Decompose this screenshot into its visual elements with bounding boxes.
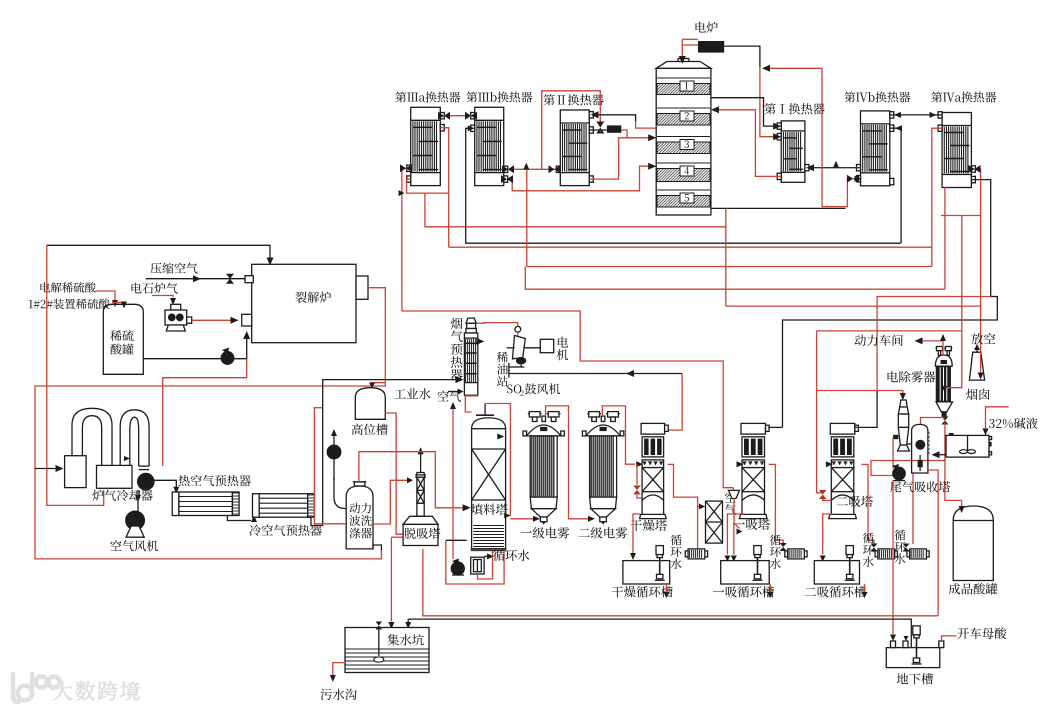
pipe pump loop to tower red bbox=[446, 539, 467, 541]
pipe IIIa-IIIb top red bbox=[440, 115, 474, 117]
absorber1 一吸塔 bbox=[741, 423, 766, 434]
pipe top feed to furnace black bbox=[47, 245, 270, 258]
label 冷空气预热器 bbox=[250, 525, 322, 536]
label 脱吸塔 bbox=[404, 528, 440, 539]
label 1#2#装置稀硫酸 bbox=[29, 299, 110, 310]
pipe into converter below bed2 red bbox=[636, 121, 657, 128]
label 工业水 bbox=[394, 388, 430, 399]
pipe air intake red bbox=[452, 404, 454, 560]
pipe ESP top to power house red bbox=[921, 341, 943, 355]
label heat-exchanger IVb 第Ⅳb换热器 bbox=[844, 92, 910, 103]
circulation cooler tailgas bbox=[907, 551, 910, 557]
pipe packed tower top gas red bbox=[485, 404, 510, 516]
pipe branch to head tank red bbox=[372, 382, 385, 384]
label 集水坑 bbox=[387, 634, 423, 646]
valve circle on blower suction bbox=[515, 326, 521, 332]
pipe cold-preheater outlet up black bbox=[311, 380, 458, 526]
tail gas pump black bbox=[893, 467, 905, 479]
pipe IVa right-nub1 red to chimney bbox=[971, 169, 980, 380]
label 尾气吸收塔 bbox=[890, 481, 950, 492]
label 循环水 drying vertical bbox=[671, 535, 682, 569]
pipe venturi feed arrow bbox=[900, 393, 906, 400]
pipe IIIa right nub down red bbox=[440, 128, 448, 248]
pipe stripper bottom to drain header red bbox=[423, 549, 938, 616]
cracking furnace 裂解炉 bbox=[252, 264, 356, 342]
pipe preheater bottom red underline bbox=[464, 395, 477, 397]
heat exchanger IIIa bbox=[411, 107, 441, 185]
label 污水沟 bbox=[321, 689, 357, 700]
oil station piping black bbox=[509, 366, 525, 368]
pipe IVa left-nub red down to header bbox=[932, 128, 942, 266]
pump on drying tank bbox=[656, 546, 663, 555]
pipe acid tank bottom to pump black bbox=[143, 358, 221, 360]
label heat-exchanger IVa 第Ⅳa换热器 bbox=[931, 92, 996, 103]
cooler U-tube 1 bbox=[72, 408, 112, 465]
label heat-exchanger IIIb 第Ⅲb换热器 bbox=[466, 92, 532, 103]
pipe converter-bed1-outlet to HX I black bbox=[711, 98, 775, 126]
pipe IIIb bottom valve to converter bed4 red bbox=[511, 166, 651, 191]
pipe main gas line blower black bbox=[509, 373, 682, 375]
label 压缩空气 bbox=[150, 263, 197, 274]
pipe absorber2 drain red bbox=[823, 514, 833, 555]
carbide gas line red bbox=[152, 296, 173, 298]
label 动力车间 bbox=[854, 335, 902, 347]
label 烟气预热器 vertical bbox=[451, 318, 463, 381]
pipe tee down to long header red bbox=[527, 169, 932, 266]
collection sump 集水坑 bbox=[345, 628, 429, 673]
label 二吸循环槽 bbox=[805, 586, 866, 597]
label 裂解炉 bbox=[295, 292, 331, 303]
electric furnace 电炉 block bbox=[698, 41, 724, 53]
converter catalyst bed 3 bbox=[657, 136, 710, 138]
pipe top feed left vertical red bbox=[47, 245, 104, 505]
pipe stripper drain to sump red bbox=[390, 537, 392, 621]
pipe absorber1 circulation red bbox=[769, 464, 784, 544]
wet ESP 电除雾器 bbox=[935, 355, 952, 366]
label 稀油站 vertical bbox=[497, 352, 508, 387]
pipe drying tower right circulation red bbox=[668, 464, 698, 549]
small inter tower bbox=[706, 501, 723, 543]
converter vessel 转化器 bbox=[656, 68, 711, 215]
heat exchanger IIIb bbox=[475, 107, 504, 185]
pipe absorber2 gas junction red bbox=[817, 390, 898, 392]
sump float device bbox=[378, 629, 380, 656]
pipe 215 branch red bbox=[941, 215, 981, 217]
ESP stage2 二级电雾 bbox=[589, 412, 600, 417]
pipe preheater side arrow bbox=[476, 338, 484, 345]
label 电石炉气 bbox=[132, 283, 178, 294]
pipe IVa bottom-left nub down red bbox=[944, 188, 946, 290]
label electric furnace 电炉 bbox=[696, 22, 718, 33]
label 开车母酸 bbox=[957, 627, 1006, 638]
pipe alkali feed red bbox=[986, 407, 1009, 428]
pipe ESP1 top loop red bbox=[546, 406, 589, 519]
pipe label-box red around 第Ⅱ换热器 bbox=[542, 91, 601, 170]
pipe scrubber-right to stripper top red bbox=[373, 480, 408, 524]
pipe to drying tower red bbox=[668, 374, 683, 431]
label 电解稀硫酸 bbox=[40, 282, 95, 293]
label 一级电雾 bbox=[521, 527, 570, 538]
pipe preheater top to blower red bbox=[476, 323, 518, 326]
absorber2 二吸塔 bbox=[830, 423, 855, 434]
pipe IVb top to IVa top black bbox=[890, 114, 942, 116]
flue gas preheater 烟气预热器 bbox=[466, 318, 476, 323]
pipe hot-to-cold preheater link black bbox=[227, 516, 251, 521]
pipe pump to furnace junction black bbox=[234, 338, 247, 359]
label heat-exchanger I 第Ⅰ换热器 bbox=[764, 103, 824, 114]
label 地下槽 bbox=[897, 673, 933, 684]
label 一吸塔 bbox=[734, 519, 770, 530]
label 循环水 absorber2 vertical bbox=[863, 533, 874, 567]
converter catalyst bed 5 bbox=[657, 189, 710, 191]
pipe ESP drain red bbox=[944, 418, 946, 419]
pipe alkali tank bottom loop red bbox=[871, 461, 946, 476]
pipe bed5 red riser to IVb bottom valve bbox=[822, 68, 853, 206]
watermark logo 大数跨境 bbox=[13, 674, 60, 702]
pipe to ESP1 cone red bbox=[510, 518, 533, 520]
pipe converter outlet down red 725 bbox=[725, 208, 727, 306]
pipe IVb right-nub2 black long down bbox=[890, 128, 901, 243]
label 二吸塔 bbox=[837, 496, 873, 507]
pipe absorber2 left valve red bbox=[817, 331, 823, 493]
drying tower left valve red bbox=[636, 464, 638, 485]
pipe IIIb to HX II red with valve bbox=[504, 168, 561, 170]
label heat-exchanger IIIa 第Ⅲa换热器 bbox=[395, 92, 460, 103]
label 32%碱液 bbox=[989, 418, 1038, 429]
label 炉气冷却器 bbox=[92, 490, 152, 501]
pipe head tank to stripper red bbox=[385, 413, 403, 534]
pipe heater to converter bed3 red bbox=[621, 130, 651, 138]
label 动力波洗涤器 bbox=[349, 503, 371, 514]
pipe furnace-right black down bbox=[724, 46, 760, 67]
air blower 空气风机 bbox=[126, 511, 145, 530]
head tank 高位槽 bbox=[355, 388, 385, 420]
heat exchanger IVa bbox=[942, 113, 971, 188]
converter catalyst bed 4 bbox=[657, 162, 710, 164]
label 循环水 absorber1 vertical bbox=[770, 535, 781, 569]
pipe header 267-289 link red bbox=[525, 267, 945, 290]
scrubber bottom outlet black bbox=[373, 545, 381, 551]
converter catalyst bed 1 bbox=[657, 77, 710, 79]
heat exchanger I bbox=[781, 121, 805, 182]
furnace gas cooler 炉气冷却器 boxes bbox=[65, 456, 87, 488]
pipe box loop to tower red bbox=[477, 551, 492, 579]
pipe tail line 306 red to chimney riser bbox=[726, 305, 981, 307]
pipe ESP2 top loop red bbox=[602, 406, 635, 464]
label heat-exchanger II 第Ⅱ换热器 bbox=[543, 94, 603, 105]
pipe IVb-return joins furnace line red bbox=[766, 67, 822, 69]
pipe sump overflow to sewer red bbox=[333, 663, 345, 676]
circulation cooler drying bbox=[685, 551, 688, 557]
pipe blower discharge to furnace red bbox=[192, 319, 233, 321]
pipe branch 296 red to absorber-2 bbox=[877, 297, 991, 391]
venturi column of tail gas absorber bbox=[900, 400, 907, 407]
roots blower 电石炉气风机 bbox=[171, 304, 181, 310]
label 二级电雾 bbox=[579, 527, 628, 538]
label 填料塔 bbox=[471, 504, 508, 515]
pipe furnace-to-converter-top red bbox=[682, 45, 698, 57]
pipe converter bed5 outlet black bbox=[711, 207, 846, 209]
ESP stage1 一级电雾 bbox=[529, 412, 540, 417]
packed tower 填料塔 bbox=[484, 404, 486, 416]
hot-gas pump circle bbox=[138, 473, 154, 489]
label 空气 vertical at absorber1 bbox=[725, 492, 736, 515]
drying circulation tank 干燥循环槽 bbox=[623, 561, 670, 584]
pipe HX I right to IVb black bbox=[812, 167, 861, 169]
pipe tail gas main red 330 bbox=[817, 330, 962, 332]
hot air preheater 热空气预热器 bbox=[172, 492, 179, 516]
pipe absorber2 circulation red bbox=[861, 464, 874, 544]
pipe alkali tank to absorber black bbox=[937, 454, 946, 456]
circulation water pump black bbox=[451, 562, 464, 575]
pipe HX I bottom to converter bed2-inlet red bbox=[717, 110, 782, 177]
label 干燥循环槽 bbox=[612, 586, 673, 597]
pipe IIIb left-nub black long down bbox=[466, 128, 901, 243]
pipe absorber2 top outlet black bbox=[854, 391, 877, 428]
pipe IIIa left-nub2 red bbox=[407, 179, 449, 193]
pipe 1#2# acid feed red bbox=[112, 302, 124, 304]
motor 电机 bbox=[540, 339, 553, 352]
heater box after HX II bbox=[589, 129, 607, 131]
cold air preheater 冷空气预热器 bbox=[253, 494, 260, 518]
label 高位槽 bbox=[352, 423, 388, 435]
long pipe IIIa header 311 red bbox=[402, 311, 734, 488]
pipe red long header 247 right end bbox=[449, 246, 932, 248]
heat exchanger IVb bbox=[861, 111, 890, 186]
absorber1 circulation tank 一吸循环槽 bbox=[721, 561, 770, 584]
pipe compressed air black bbox=[146, 278, 245, 280]
pump on absorber2 tank bbox=[846, 546, 853, 555]
pipe HX II bottom-right to bed3 line red bbox=[589, 138, 627, 179]
label 干燥塔 bbox=[631, 520, 667, 531]
oil station pump ellipse bbox=[516, 357, 526, 364]
circulation cooler absorber2 bbox=[875, 551, 878, 557]
drying tower 干燥塔 bbox=[641, 423, 665, 434]
tank drain stubs red bbox=[665, 584, 667, 592]
pipe red riser to scrubber bbox=[314, 407, 323, 409]
pipe pump to underground tank red bbox=[892, 481, 894, 635]
chimney 烟囱 bbox=[969, 352, 984, 380]
pipe ESP drain branch to absorber dome red bbox=[921, 418, 945, 425]
cooler outlet pipe cap bbox=[139, 465, 149, 467]
ESP cone bottom bbox=[936, 402, 953, 412]
dynamic wave scrubber 动力波洗涤器 bbox=[354, 482, 365, 486]
heat exchanger II bbox=[560, 110, 589, 186]
label 电机 vertical bbox=[557, 337, 568, 361]
label 热空气预热器 bbox=[178, 475, 250, 486]
pipe startup acid red bbox=[942, 636, 957, 641]
pipe absorber1 drains red bbox=[727, 514, 744, 555]
circulation cooler absorber1 bbox=[785, 551, 788, 557]
dilute sulfuric acid tank 稀硫酸罐 bbox=[103, 304, 143, 374]
tail gas absorber vessel 尾气吸收塔 bbox=[912, 424, 928, 473]
blower-motor shaft black bbox=[507, 347, 515, 349]
circulation water box bbox=[471, 557, 484, 574]
label 放空 bbox=[971, 333, 995, 345]
pipe absorber bottom to drain header red bbox=[928, 470, 938, 616]
pipe tailgas circulation red bbox=[912, 473, 914, 544]
label 循环水 tailgas vertical bbox=[895, 530, 906, 564]
converter catalyst bed 2 bbox=[657, 107, 710, 109]
pipe drying tower drain red bbox=[633, 514, 640, 553]
label 烟囱 bbox=[966, 388, 989, 400]
air funnel at absorber1 bbox=[729, 490, 740, 498]
pump on underground tank bbox=[913, 626, 920, 635]
stripper column 脱吸塔 bbox=[420, 448, 422, 473]
scrubber suction pipe with pump black bbox=[333, 432, 335, 480]
pipe junction red down-left loop bbox=[163, 359, 247, 466]
acid pump black bbox=[221, 352, 234, 365]
so2 blower casing bbox=[513, 336, 526, 359]
label 一吸循环槽 bbox=[713, 586, 774, 597]
label 稀硫酸罐 bbox=[110, 330, 133, 341]
pipe HX II top black from converter side bbox=[596, 115, 636, 121]
pipe scrubber-neck to packed tower red bbox=[359, 452, 463, 508]
pipe air funnel line red bbox=[733, 488, 735, 491]
product acid tank 成品酸罐 bbox=[953, 506, 993, 581]
alkali tank 碱液槽 bbox=[946, 435, 989, 457]
pipe inlet to cooler black bbox=[35, 468, 58, 470]
pipe electrolytic acid feed red bbox=[95, 291, 115, 300]
pipe venturi left drain red bbox=[892, 437, 894, 469]
pipe hx1-feed red vertical bbox=[760, 67, 775, 137]
pump on absorber1 tank bbox=[754, 546, 761, 555]
black drain header 619 bbox=[408, 619, 911, 648]
pipe IVa right-nub2 black down bbox=[783, 180, 998, 428]
label 循环水 bbox=[493, 550, 529, 561]
label 成品酸罐 bbox=[949, 583, 998, 595]
cooler U-tube 2 bbox=[120, 410, 149, 466]
pipe absorber1 top outlet black bbox=[768, 426, 782, 428]
absorber2 circulation tank 二吸循环槽 bbox=[814, 561, 859, 584]
label 空气 at preheater bottom bbox=[437, 391, 461, 402]
label 电除雾器 bbox=[888, 371, 936, 382]
pipe IIIa left-nub1 long red down bbox=[402, 168, 411, 311]
label SO2鼓风机 bbox=[507, 384, 521, 393]
pipe furnace tab red to left loop bbox=[35, 288, 385, 559]
pipe pump to hot-air-preheater black bbox=[154, 480, 176, 488]
underground tank 地下槽 bbox=[886, 648, 940, 668]
pipe IIIa junction drop red bbox=[425, 193, 726, 227]
label 空气风机 bbox=[110, 540, 158, 551]
